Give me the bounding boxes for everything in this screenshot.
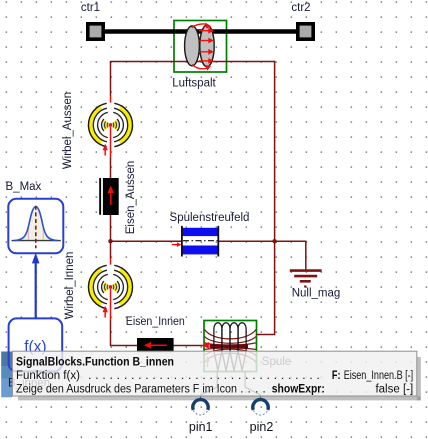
wire Wirbel_Innen to Eisen_Innen to Spule [111, 320, 205, 346]
svg-text:SignalBlocks.Function B_innen: SignalBlocks.Function B_innen [16, 357, 174, 369]
svg-text:. . . . . . . . . . . . . . .: . . . . . . . . . . . . . . . . . . . . … [88, 370, 320, 382]
wire red stub into Wirbel_Aussen [110, 96, 112, 104]
wire ctr1 to ctr2 thick black [104, 29, 297, 34]
junction B [272, 239, 276, 243]
svg-text:F:: F: [332, 370, 341, 382]
blue strip left edge [1, 352, 12, 367]
connector ctr1 [88, 24, 103, 39]
wire junction B down to Spule right [257, 241, 275, 334]
svg-text:Wirbel_Aussen: Wirbel_Aussen [62, 92, 74, 169]
air gap Luftspalt green frame [174, 21, 227, 73]
svg-text:false [-]: false [-] [375, 383, 413, 395]
wire junction B to ground [275, 241, 306, 269]
leakage Spulenstreufeld [172, 226, 219, 257]
svg-text:pin2: pin2 [250, 420, 274, 434]
svg-text:ctr1: ctr1 [81, 2, 100, 14]
wire junction A to Spulenstreufeld [111, 240, 183, 242]
wire red stub into Wirbel_Innen [110, 258, 112, 266]
coil Spule field lines [205, 330, 257, 363]
svg-text:Spulenstreufeld: Spulenstreufeld [170, 212, 250, 224]
wire Wirbel_Aussen to Eisen_Aussen to junction A [110, 158, 112, 241]
svg-text:Wirbel_Innen: Wirbel_Innen [64, 252, 76, 320]
svg-text:ctr2: ctr2 [291, 2, 310, 14]
svg-text:Funktion f(x): Funktion f(x) [16, 370, 80, 382]
iron Eisen_Aussen [99, 178, 119, 215]
svg-text:Eisen_Innen.B [-]: Eisen_Innen.B [-] [344, 370, 414, 382]
svg-text:Zeige den Ausdruck des Paramet: Zeige den Ausdruck des Parameters F im I… [16, 383, 237, 395]
svg-text:showExpr:: showExpr: [272, 383, 325, 395]
wire Spule to pin1 [201, 371, 218, 400]
junction A [108, 239, 112, 243]
wire junction B up to Luftspalt [274, 61, 276, 241]
connector ctr2 [298, 24, 313, 39]
function block B_innen f(x) [9, 318, 63, 371]
tooltip shadow [417, 357, 421, 400]
eddy component Wirbel_Innen [88, 265, 133, 320]
ground Null_mag [290, 271, 322, 282]
wire Luftspalt left to Wirbel_Aussen [111, 62, 276, 97]
coil Spule green frame [204, 321, 257, 372]
coil Spule windings [214, 323, 246, 371]
coil Spule core bar [210, 344, 249, 348]
eddy component Wirbel_Aussen [88, 103, 133, 158]
svg-text:Eisen_Aussen: Eisen_Aussen [125, 161, 137, 235]
svg-text:. . . .: . . . . [240, 383, 266, 395]
svg-text:Eisen_Innen: Eisen_Innen [126, 316, 185, 328]
function block border over strip [8, 318, 62, 389]
coil Spule icon arrow [207, 359, 209, 367]
tooltip panel [12, 351, 416, 396]
iron Eisen_Innen [137, 338, 174, 352]
electrical pin1 [193, 400, 208, 415]
svg-text:Luftspalt: Luftspalt [172, 78, 216, 90]
wire junction A down to Wirbel_Innen [110, 241, 112, 258]
wire Spule to pin2 [245, 371, 260, 400]
coil Spule flux arrow [202, 342, 209, 349]
wire Spulenstreufeld to junction B [219, 240, 275, 242]
signal arrow B_Max input [35, 263, 37, 319]
svg-text:Null_mag: Null_mag [292, 288, 341, 300]
svg-text:pin1: pin1 [189, 420, 213, 434]
svg-text:B_Max: B_Max [6, 181, 42, 193]
air gap Luftspalt ellipses and arrows [185, 23, 215, 71]
electrical pin2 [253, 400, 268, 415]
